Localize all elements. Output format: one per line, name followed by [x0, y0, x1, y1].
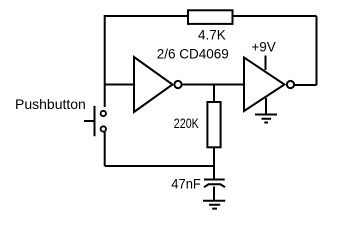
op-amp U1B inverter (triangle) — [244, 58, 285, 112]
node junction wire down to R2 — [213, 85, 215, 103]
wire right vertical (U1B output feedback) — [316, 16, 318, 85]
wire pushbutton bottom contact down — [104, 132, 106, 166]
svg-text:2/6 CD4069: 2/6 CD4069 — [157, 46, 229, 61]
wire +9V pin into U1B — [265, 56, 267, 71]
svg-text:+9V: +9V — [251, 39, 275, 54]
label Pushbutton — [15, 96, 86, 112]
resistor R2 220K (box) — [207, 102, 220, 147]
ground symbol at C1 — [203, 201, 225, 209]
pushbutton S1 top contact — [101, 111, 106, 116]
svg-text:47nF: 47nF — [171, 177, 201, 192]
wire bottom horizontal (pushbutton to cap node) — [105, 165, 215, 167]
wire U1A output to U1B input — [182, 84, 244, 86]
svg-text:Pushbutton: Pushbutton — [15, 96, 86, 112]
label 47nF — [171, 177, 201, 192]
wire top-left segment (feedback to R1) — [105, 16, 187, 107]
label 4.7K — [198, 28, 226, 43]
wire R2 bottom to capacitor node — [213, 147, 215, 179]
op-amp U1A inverter 2/6 CD4069 (triangle) — [134, 57, 173, 112]
wire R1 to right vertical — [234, 15, 317, 17]
pushbutton S1 bottom contact — [101, 126, 106, 131]
capacitor C1 top plate — [204, 179, 225, 181]
wire U1B output to right vertical — [295, 84, 317, 86]
capacitor C1 bottom curved plate — [204, 184, 225, 187]
svg-text:220K: 220K — [174, 116, 199, 131]
label +9V — [251, 39, 275, 54]
U1A output bubble — [174, 81, 181, 88]
resistor R1 4.7K (box) — [188, 10, 233, 24]
pushbutton S1 stem — [84, 120, 95, 122]
U1B output bubble — [287, 81, 294, 88]
pushbutton S1 actuator bar — [94, 106, 96, 136]
label 2/6 CD4069 — [157, 46, 229, 61]
label 220K — [174, 116, 199, 131]
ground symbol at U1B — [255, 115, 277, 123]
svg-text:4.7K: 4.7K — [198, 28, 226, 43]
wire capacitor to ground — [213, 187, 215, 201]
wire U1B ground pin — [265, 98, 267, 114]
wire input to U1A — [105, 84, 134, 86]
